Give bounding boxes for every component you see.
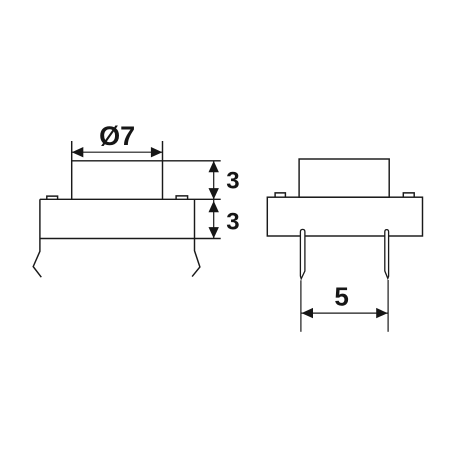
- side view: left locating tab on body top: [47, 196, 58, 199]
- front view: left locating tab on body top: [275, 193, 285, 197]
- svg-text:3: 3: [226, 168, 239, 195]
- side view: button plunger left side (extended up as dimension extension line): [71, 141, 73, 199]
- side view: switch body bottom edge (extended right as extension line): [40, 238, 221, 240]
- dimension Ø7: left arrowhead: [72, 147, 84, 157]
- dimension Ø7: right arrowhead: [151, 147, 163, 157]
- side view: right locating tab on body top: [176, 196, 188, 199]
- side view: switch body right side: [194, 199, 196, 238]
- dimension 5: left extension line from pin tip: [300, 280, 302, 332]
- side view: switch body left side: [39, 199, 41, 238]
- dimension 3+3: vertical dimension line: [213, 161, 215, 239]
- dimension 3 (button height): upper arrowhead: [209, 161, 219, 172]
- front view: right terminal pin: [385, 230, 389, 279]
- dimension 3 (body height): lower arrowhead: [209, 227, 219, 238]
- dimension 5: dimension line: [302, 312, 388, 314]
- side view: button plunger top edge (extended right as extension line): [72, 160, 221, 162]
- dimension 3 (button height): lower arrowhead: [209, 188, 219, 199]
- svg-text:3: 3: [226, 209, 239, 236]
- dimension 3 (body height): upper arrowhead: [209, 201, 219, 212]
- front view: right locating tab on body top: [403, 193, 414, 197]
- front view: left terminal pin: [300, 229, 305, 278]
- dimension 5: right extension line from pin tip: [387, 280, 389, 332]
- side view: left bent mounting leg: [33, 239, 41, 278]
- front view: switch body outline: [267, 197, 422, 236]
- svg-text:5: 5: [334, 281, 348, 311]
- side view: switch body top edge (extended right as extension line): [40, 198, 221, 200]
- svg-text:Ø7: Ø7: [99, 121, 135, 151]
- dimension Ø7: dimension line: [72, 151, 163, 153]
- dimension 5: left arrowhead: [302, 308, 314, 318]
- side view: button plunger right side (extended up as dimension extension line): [162, 141, 164, 199]
- front view: button plunger outline: [299, 159, 389, 197]
- side view: right bent mounting leg: [192, 239, 200, 277]
- dimension 5: right arrowhead: [376, 308, 388, 318]
